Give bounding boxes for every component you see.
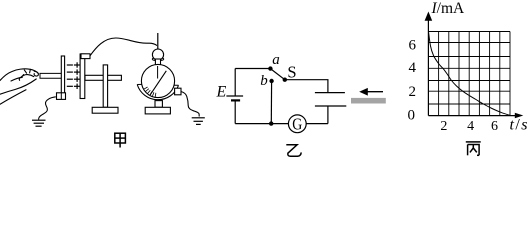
holder tip caps — [137, 83, 142, 85]
wire from terminal to ground (right) — [181, 92, 199, 117]
stand post — [103, 65, 107, 107]
electroscope rod above ball — [157, 33, 159, 50]
node b (switch contact dot) — [269, 79, 273, 83]
I-t decay curve — [429, 32, 511, 116]
junction dot (b branch meets bottom wire) — [269, 121, 273, 125]
forearm lines — [0, 90, 26, 105]
hand holding rod — [0, 69, 38, 94]
svg-text:S: S — [287, 63, 296, 82]
wire from b down to bottom wire — [270, 81, 272, 124]
node a (switch contact dot) — [268, 66, 272, 70]
y axis — [427, 18, 429, 116]
svg-text:0: 0 — [408, 107, 416, 123]
x axis — [428, 115, 516, 117]
capacitor bottom plate — [315, 105, 346, 107]
svg-text:t/s: t/s — [510, 117, 529, 134]
svg-text:4: 4 — [409, 60, 417, 76]
switch S blade (thrown to a) — [270, 69, 284, 80]
electroscope neck — [155, 59, 160, 68]
wire from right plate terminal to electroscope ball — [90, 38, 157, 56]
svg-text:G: G — [292, 114, 302, 133]
switch S pivot dot — [283, 78, 287, 82]
label 乙 — [286, 145, 301, 156]
arrow (slab pushed left into capacitor) — [366, 91, 383, 93]
scale ticks — [144, 87, 156, 97]
svg-text:2: 2 — [440, 119, 447, 134]
galvanometer G body — [288, 115, 306, 133]
dielectric slab — [351, 98, 386, 104]
svg-text:a: a — [272, 52, 280, 68]
wire from left plate clamp to ground — [39, 97, 56, 120]
wire from pivot to capacitor — [285, 80, 328, 93]
needle — [150, 71, 166, 95]
ground (left) — [32, 120, 46, 126]
label 甲 — [115, 133, 126, 147]
ground (right) — [192, 118, 205, 125]
pedestal base — [145, 107, 170, 114]
grid verticals — [439, 32, 510, 116]
svg-text:E: E — [216, 84, 227, 101]
svg-text:6: 6 — [409, 38, 417, 54]
label 丙 — [466, 142, 481, 155]
svg-text:2: 2 — [409, 84, 417, 100]
stand arm — [85, 75, 121, 80]
left wire — [234, 69, 236, 97]
terminal on right plate top — [81, 54, 90, 59]
holder cradle outer arc — [137, 85, 178, 100]
capacitor top plate — [315, 92, 345, 94]
terminal square on right — [175, 88, 181, 95]
bottom lead — [327, 106, 329, 124]
electroscope body circle — [141, 64, 174, 97]
charge signs between plates — [67, 62, 80, 89]
stand base — [92, 107, 118, 113]
capacitor right plate — [80, 54, 85, 99]
svg-text:6: 6 — [491, 119, 498, 134]
top wire — [235, 68, 270, 70]
pedestal — [155, 101, 162, 108]
svg-text:4: 4 — [467, 119, 474, 134]
left plate bottom clamp — [57, 93, 66, 100]
capacitor left plate — [61, 56, 64, 93]
rod held by hand — [40, 73, 61, 78]
inner rod — [157, 66, 159, 79]
bottom wire left segment — [235, 123, 288, 125]
collar under ball — [152, 57, 163, 60]
svg-text:b: b — [260, 73, 268, 89]
bottom wire right segment — [306, 123, 328, 125]
svg-text:I/mA: I/mA — [431, 0, 466, 17]
electroscope ball — [152, 49, 163, 60]
grid horizontals — [428, 32, 510, 105]
battery E plates — [226, 95, 243, 97]
